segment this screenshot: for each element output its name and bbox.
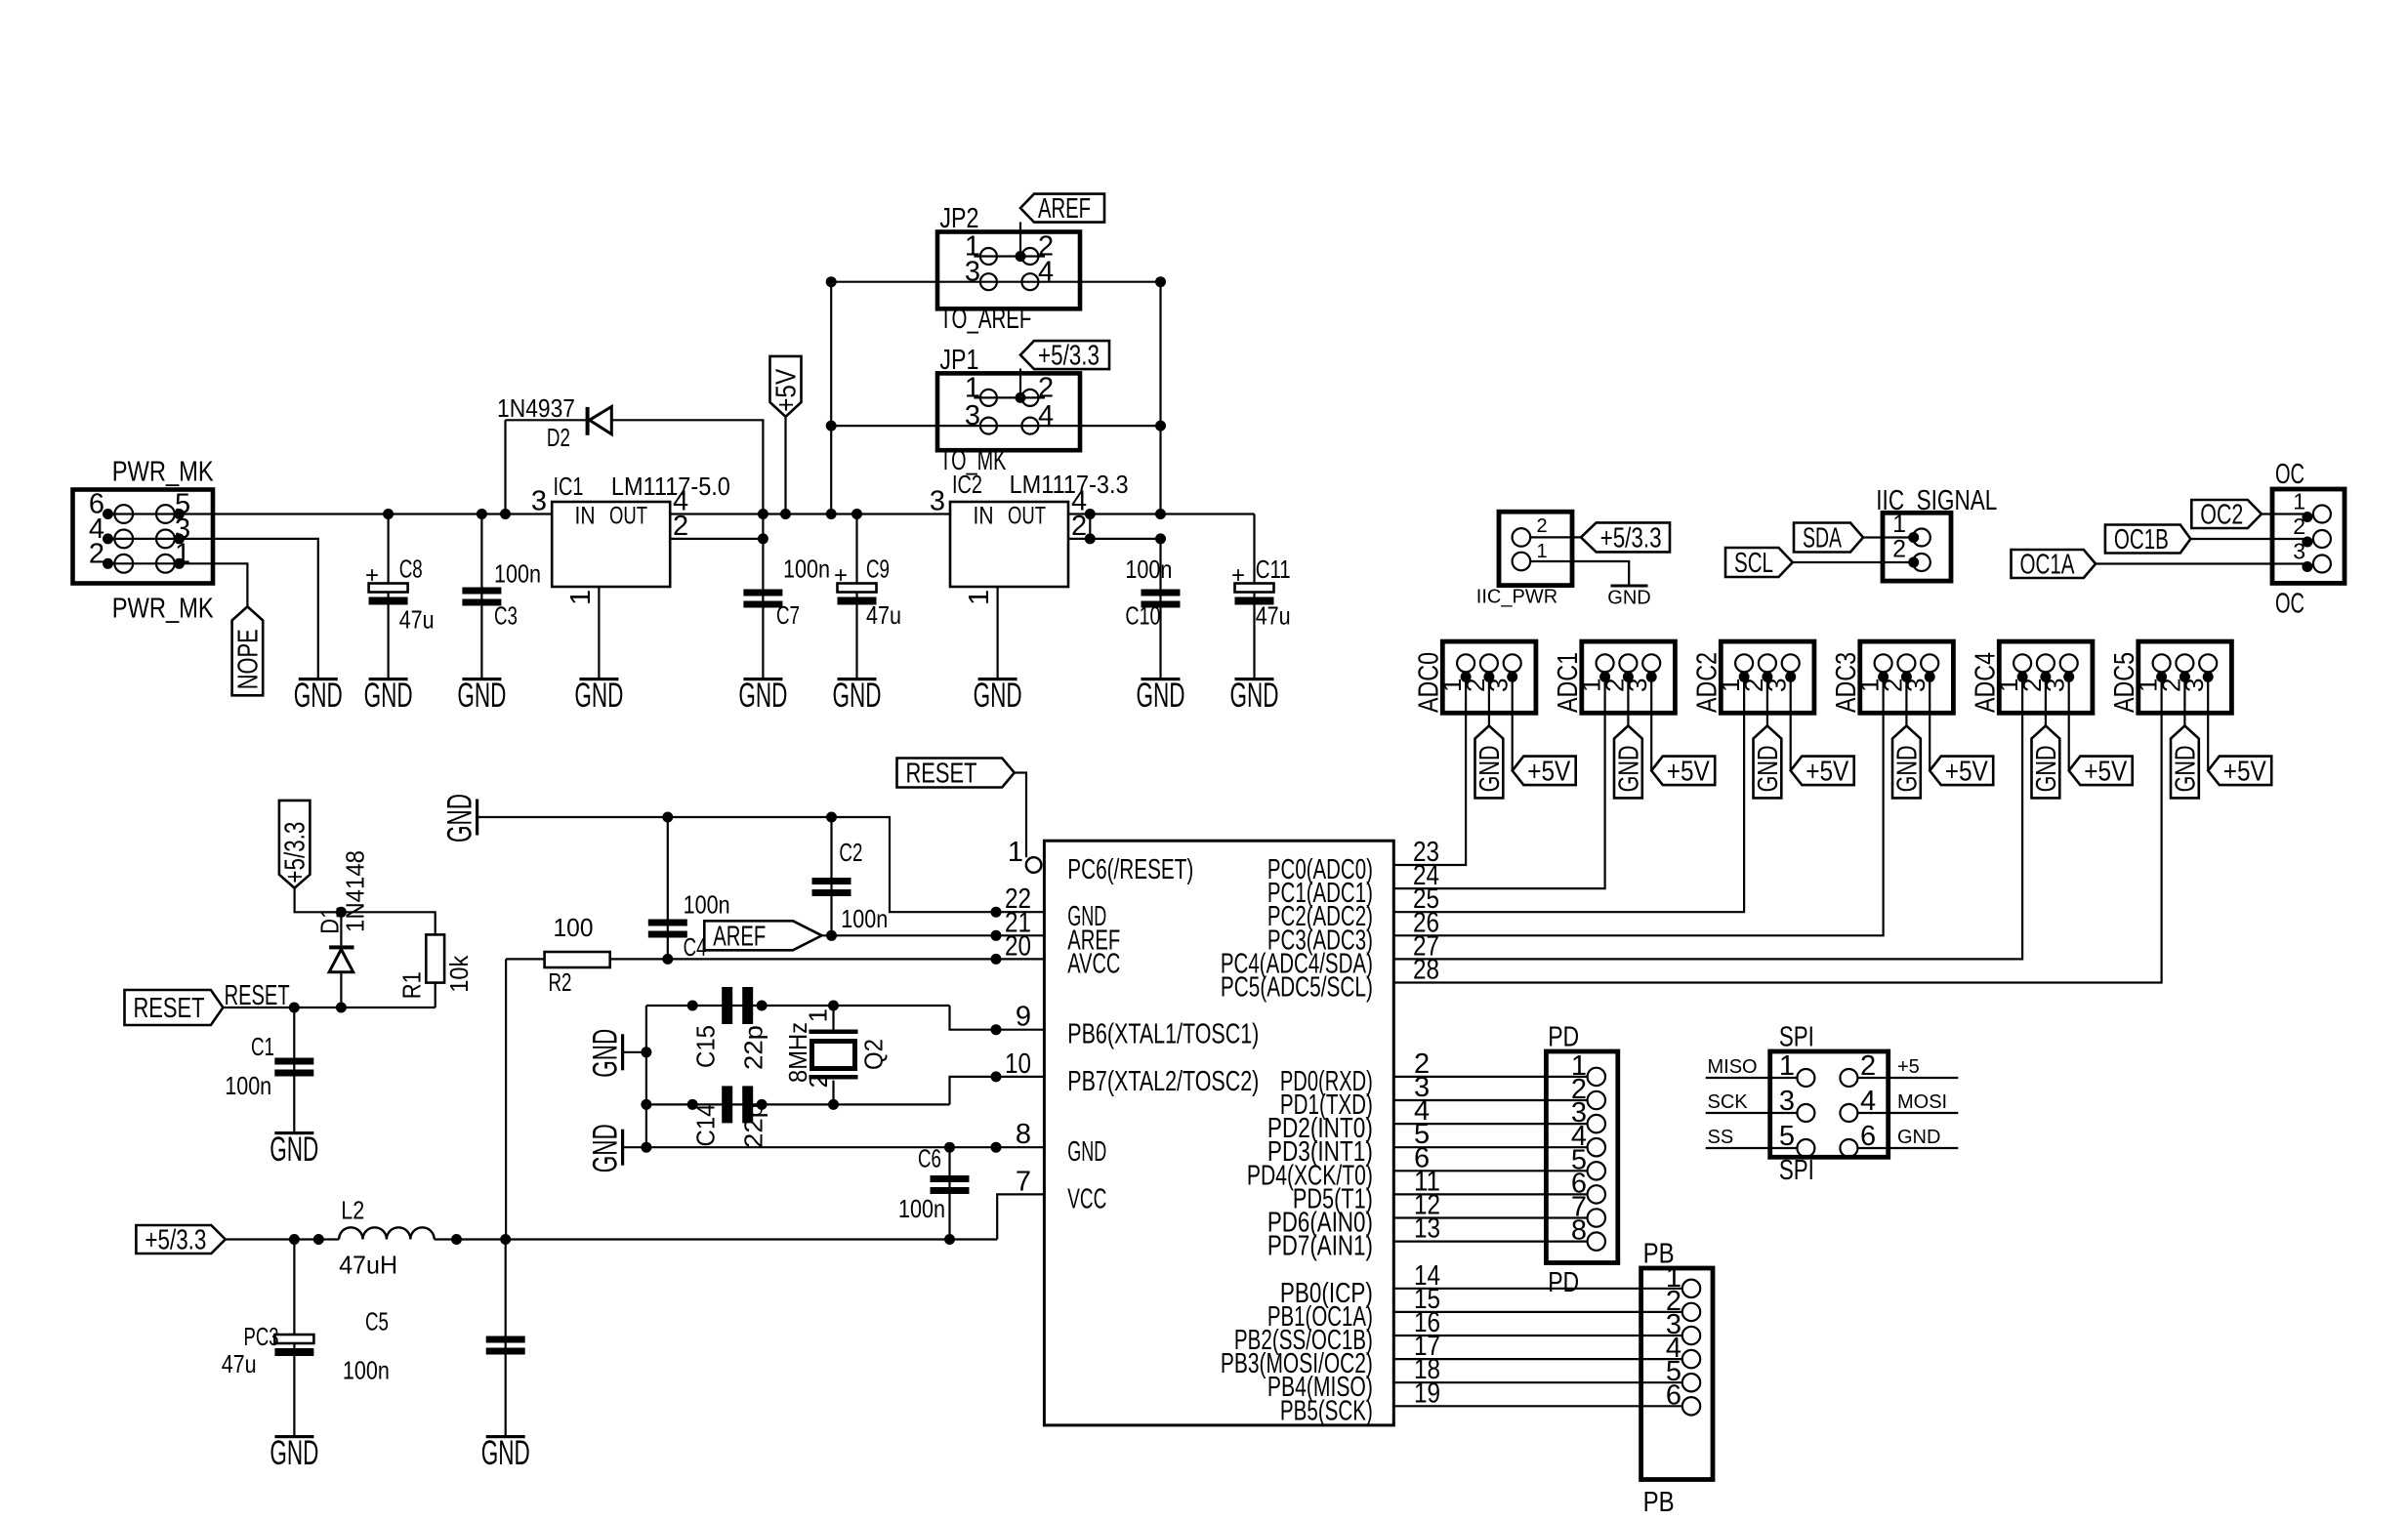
svg-text:C10: C10: [1125, 601, 1160, 631]
svg-text:100n: 100n: [1125, 555, 1172, 584]
svg-text:PWR_MK: PWR_MK: [112, 594, 215, 625]
svg-text:SPI: SPI: [1779, 1155, 1814, 1186]
svg-text:6: 6: [1860, 1121, 1876, 1152]
svg-text:JP1: JP1: [939, 345, 978, 376]
svg-text:100n: 100n: [494, 559, 541, 589]
svg-text:PC5(ADC5/SCL): PC5(ADC5/SCL): [1221, 972, 1373, 1004]
svg-text:GND: GND: [1137, 677, 1185, 715]
svg-text:GND: GND: [738, 677, 787, 715]
svg-text:LM1117-3.3: LM1117-3.3: [1010, 470, 1129, 499]
svg-text:10k: 10k: [444, 955, 474, 993]
svg-text:GND: GND: [1753, 745, 1784, 792]
svg-text:1: 1: [175, 538, 190, 569]
svg-text:TO_AREF: TO_AREF: [939, 304, 1031, 335]
svg-text:NOPE: NOPE: [232, 629, 264, 689]
svg-text:GND: GND: [587, 1029, 625, 1078]
svg-text:100n: 100n: [841, 904, 888, 933]
svg-text:AREF: AREF: [1038, 193, 1091, 225]
svg-text:10: 10: [1005, 1048, 1031, 1080]
svg-text:47u: 47u: [1256, 601, 1291, 631]
svg-text:PD7(AIN1): PD7(AIN1): [1267, 1231, 1373, 1262]
svg-text:OUT: OUT: [609, 503, 647, 530]
svg-text:100n: 100n: [225, 1071, 271, 1100]
svg-text:C5: C5: [365, 1307, 389, 1336]
svg-text:3: 3: [2293, 539, 2305, 564]
svg-text:PB: PB: [1643, 1487, 1675, 1518]
svg-text:GND: GND: [441, 794, 479, 843]
svg-text:GND: GND: [574, 677, 623, 715]
svg-text:GND: GND: [2170, 745, 2201, 792]
svg-text:IN: IN: [575, 503, 596, 530]
svg-text:IIC_PWR: IIC_PWR: [1476, 587, 1557, 608]
svg-text:C6: C6: [918, 1144, 941, 1173]
svg-text:GND: GND: [587, 1124, 625, 1172]
svg-text:GND: GND: [294, 677, 343, 715]
svg-text:VCC: VCC: [1067, 1183, 1106, 1214]
svg-text:1: 1: [1779, 1050, 1795, 1082]
svg-text:1: 1: [1008, 837, 1023, 868]
svg-text:JP2: JP2: [939, 203, 978, 234]
svg-text:22p: 22p: [738, 1025, 768, 1070]
svg-text:OC: OC: [2275, 589, 2304, 620]
svg-text:GND: GND: [270, 1130, 318, 1169]
svg-text:C1: C1: [251, 1032, 274, 1061]
svg-text:SCL: SCL: [1734, 548, 1773, 579]
svg-text:5: 5: [1779, 1121, 1795, 1152]
svg-text:+: +: [834, 562, 848, 589]
svg-text:1: 1: [1537, 541, 1548, 562]
svg-text:GND: GND: [974, 677, 1022, 715]
svg-text:GND: GND: [1067, 1136, 1106, 1168]
svg-text:2: 2: [1071, 511, 1087, 542]
svg-text:1N4937: 1N4937: [497, 393, 575, 423]
svg-text:+: +: [365, 562, 379, 589]
svg-text:22p: 22p: [738, 1103, 768, 1148]
svg-text:1: 1: [1892, 511, 1906, 538]
svg-text:4: 4: [1860, 1086, 1876, 1117]
svg-text:2: 2: [1892, 536, 1906, 563]
svg-text:PC6(/RESET): PC6(/RESET): [1067, 854, 1193, 885]
svg-text:1N4148: 1N4148: [341, 850, 370, 932]
svg-text:GND: GND: [2031, 745, 2062, 792]
svg-text:4: 4: [1038, 257, 1054, 288]
svg-text:19: 19: [1414, 1377, 1440, 1409]
svg-text:LM1117-5.0: LM1117-5.0: [611, 472, 730, 501]
svg-text:9: 9: [1016, 1002, 1031, 1033]
svg-text:100: 100: [554, 913, 594, 942]
svg-text:C9: C9: [866, 555, 890, 584]
svg-text:PC3: PC3: [244, 1322, 279, 1351]
svg-text:+5/3.3: +5/3.3: [145, 1225, 206, 1256]
svg-text:+5/3.3: +5/3.3: [280, 822, 311, 884]
svg-text:47u: 47u: [866, 600, 901, 630]
svg-text:2: 2: [804, 1074, 833, 1088]
svg-text:1: 1: [964, 590, 995, 605]
svg-text:C11: C11: [1256, 555, 1291, 584]
svg-text:OC1B: OC1B: [2114, 524, 2169, 555]
svg-text:RESET: RESET: [225, 980, 290, 1011]
svg-text:R1: R1: [397, 971, 427, 999]
svg-text:MISO: MISO: [1708, 1056, 1758, 1078]
svg-text:GND: GND: [1607, 588, 1650, 609]
svg-text:IC2: IC2: [952, 470, 982, 499]
svg-text:PWR_MK: PWR_MK: [112, 457, 215, 488]
svg-text:GND: GND: [270, 1434, 318, 1472]
svg-text:L2: L2: [341, 1196, 364, 1225]
svg-text:+5V: +5V: [771, 368, 803, 412]
svg-text:+5: +5: [1897, 1056, 1920, 1078]
svg-text:PD: PD: [1548, 1267, 1579, 1298]
svg-text:GND: GND: [1897, 1127, 1940, 1148]
svg-text:SDA: SDA: [1803, 523, 1842, 555]
svg-text:Q2: Q2: [859, 1039, 889, 1070]
svg-text:IN: IN: [974, 503, 994, 530]
svg-text:R2: R2: [549, 967, 572, 997]
svg-text:PB7(XTAL2/TOSC2): PB7(XTAL2/TOSC2): [1067, 1066, 1259, 1097]
svg-text:1: 1: [804, 1008, 833, 1022]
svg-text:1: 1: [565, 590, 597, 605]
svg-text:47u: 47u: [399, 605, 435, 635]
svg-text:GND: GND: [1613, 745, 1644, 792]
svg-text:RESET: RESET: [906, 759, 977, 790]
svg-text:2: 2: [1860, 1050, 1876, 1082]
svg-text:GND: GND: [457, 677, 506, 715]
svg-text:D2: D2: [547, 423, 570, 452]
svg-text:C7: C7: [776, 600, 800, 630]
svg-text:SCK: SCK: [1708, 1091, 1749, 1113]
svg-text:GND: GND: [1230, 677, 1279, 715]
svg-text:47uH: 47uH: [339, 1251, 397, 1280]
svg-text:PB6(XTAL1/TOSC1): PB6(XTAL1/TOSC1): [1067, 1019, 1259, 1050]
svg-text:GND: GND: [1891, 745, 1923, 792]
svg-text:PD: PD: [1548, 1022, 1579, 1053]
svg-text:4: 4: [1038, 400, 1054, 432]
svg-text:C3: C3: [494, 600, 518, 630]
svg-text:+5/3.3: +5/3.3: [1038, 341, 1100, 372]
svg-text:+5V: +5V: [1806, 756, 1849, 787]
svg-text:+: +: [1231, 562, 1245, 589]
svg-text:IC1: IC1: [554, 472, 584, 501]
svg-text:2: 2: [1038, 372, 1054, 403]
svg-text:3: 3: [531, 486, 547, 517]
svg-text:7: 7: [1016, 1166, 1031, 1197]
svg-text:+5/3.3: +5/3.3: [1600, 522, 1662, 554]
svg-text:2: 2: [2293, 514, 2305, 539]
svg-text:+5V: +5V: [1945, 756, 1989, 787]
svg-text:AVCC: AVCC: [1067, 948, 1120, 979]
svg-text:OC2: OC2: [2200, 500, 2243, 531]
svg-text:AREF: AREF: [713, 921, 766, 952]
svg-text:GND: GND: [364, 677, 413, 715]
svg-text:3: 3: [965, 257, 980, 288]
svg-text:SS: SS: [1708, 1127, 1734, 1148]
svg-text:+5V: +5V: [1527, 756, 1571, 787]
svg-text:2: 2: [1537, 515, 1548, 537]
svg-text:GND: GND: [481, 1434, 530, 1472]
svg-text:C8: C8: [399, 555, 423, 584]
svg-text:6: 6: [1666, 1379, 1681, 1411]
svg-text:GND: GND: [1474, 745, 1506, 792]
svg-text:OC1A: OC1A: [2020, 550, 2075, 581]
svg-text:OC: OC: [2275, 459, 2304, 490]
svg-text:MOSI: MOSI: [1897, 1091, 1947, 1113]
svg-text:13: 13: [1414, 1213, 1440, 1245]
svg-text:+5V: +5V: [2084, 756, 2128, 787]
svg-text:PB5(SCK): PB5(SCK): [1280, 1395, 1373, 1426]
svg-text:1: 1: [965, 372, 980, 403]
svg-text:2: 2: [89, 538, 104, 569]
svg-text:3: 3: [1779, 1086, 1795, 1117]
svg-text:8: 8: [1571, 1215, 1587, 1247]
svg-text:+5V: +5V: [2223, 756, 2267, 787]
svg-text:C2: C2: [839, 838, 862, 867]
svg-text:100n: 100n: [343, 1356, 390, 1385]
svg-text:C14: C14: [691, 1104, 721, 1147]
svg-text:8: 8: [1016, 1119, 1031, 1150]
svg-text:100n: 100n: [783, 555, 830, 584]
svg-text:RESET: RESET: [134, 993, 205, 1024]
svg-text:GND: GND: [833, 677, 882, 715]
svg-text:3: 3: [965, 400, 980, 432]
svg-text:2: 2: [673, 511, 688, 542]
svg-text:8MHz: 8MHz: [783, 1022, 812, 1083]
svg-text:100n: 100n: [684, 890, 730, 920]
svg-text:1: 1: [2293, 489, 2305, 514]
svg-text:3: 3: [930, 486, 945, 517]
svg-text:SPI: SPI: [1779, 1022, 1814, 1053]
svg-text:100n: 100n: [898, 1194, 945, 1223]
svg-text:+5V: +5V: [1667, 756, 1711, 787]
svg-text:C15: C15: [691, 1025, 721, 1068]
svg-text:47u: 47u: [222, 1349, 257, 1378]
svg-text:28: 28: [1413, 955, 1439, 986]
svg-text:OUT: OUT: [1008, 503, 1046, 530]
